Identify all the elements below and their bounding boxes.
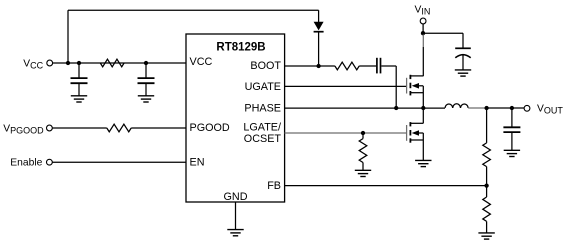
wire FB net bbox=[285, 185, 487, 187]
svg-text:OCSET: OCSET bbox=[244, 133, 282, 145]
terminal VIN bbox=[420, 18, 426, 24]
resistor R3 (boot) bbox=[335, 62, 359, 70]
wire LGATE/OCSET net (grey) bbox=[285, 132, 407, 134]
node junction phase-boot bbox=[394, 106, 398, 110]
wire VCC to top rail bbox=[67, 10, 69, 63]
svg-text:PHASE: PHASE bbox=[244, 103, 281, 115]
resistor R5 (feedback top) bbox=[483, 143, 491, 167]
capacitor C1 (VCC decoupling 1) bbox=[71, 63, 88, 96]
wire top rail to diode bbox=[68, 9, 319, 11]
ground under GND pin bbox=[227, 230, 243, 236]
svg-text:GND: GND bbox=[224, 191, 248, 203]
capacitor C4 (input, polarized) bbox=[455, 48, 471, 69]
wire VOUT net bbox=[487, 107, 525, 109]
terminal VPGOOD bbox=[47, 125, 53, 131]
svg-text:VCC: VCC bbox=[23, 59, 43, 71]
svg-text:VOUT: VOUT bbox=[537, 104, 563, 116]
IC U1 RT8129B body bbox=[186, 34, 285, 202]
capacitor C3 (bootstrap) bbox=[377, 58, 381, 74]
ground under R6 bbox=[478, 233, 494, 239]
inductor L1 bbox=[445, 104, 468, 108]
ground under C2 bbox=[138, 96, 154, 102]
wire UGATE net bbox=[285, 85, 407, 87]
node junction OCSET bbox=[361, 131, 365, 135]
wire Q1 source to phase bbox=[422, 86, 424, 108]
wire VIN grey segment to Q1 drain bbox=[422, 35, 424, 48]
pin label LGATE/OCSET bbox=[243, 122, 281, 145]
node junction VCC-B bbox=[77, 61, 81, 65]
wire Q2 source to ground bbox=[422, 133, 424, 160]
capacitor C2 (VCC decoupling 2) bbox=[138, 63, 155, 96]
svg-text:BOOT: BOOT bbox=[250, 60, 281, 72]
wire PGOOD net left bbox=[52, 127, 107, 129]
wire phase to Q2 drain bbox=[422, 108, 424, 123]
node junction VCC-C bbox=[144, 61, 148, 65]
svg-text:VCC: VCC bbox=[190, 56, 213, 68]
wire GND pin lead bbox=[235, 202, 237, 229]
wire boot cap to phase bbox=[381, 66, 396, 108]
svg-text:RT8129B: RT8129B bbox=[216, 41, 265, 53]
ground under Q2 bbox=[415, 160, 431, 166]
resistor R6 (feedback bottom) bbox=[483, 197, 491, 221]
svg-text:Enable: Enable bbox=[10, 158, 42, 169]
resistor R2 (PGOOD pull-up) bbox=[107, 124, 131, 132]
terminal VOUT bbox=[524, 105, 530, 111]
wire inductor to VOUT grey bbox=[468, 107, 486, 109]
resistor R1 (VCC filter) bbox=[100, 59, 124, 67]
svg-text:UGATE: UGATE bbox=[245, 81, 281, 93]
wire boot resistor to cap bbox=[359, 65, 376, 67]
svg-text:EN: EN bbox=[190, 157, 205, 169]
capacitor C5 (output) bbox=[503, 108, 520, 150]
wire R4 to ground bbox=[362, 163, 364, 171]
svg-text:FB: FB bbox=[267, 180, 281, 192]
node junction phase-fets bbox=[421, 106, 425, 110]
wire EN net bbox=[52, 161, 186, 163]
wire R6 to ground bbox=[486, 221, 488, 232]
svg-text:VIN: VIN bbox=[415, 5, 431, 17]
ground under C4 bbox=[455, 70, 471, 76]
node junction VOUT-R bbox=[484, 106, 488, 110]
svg-text:PGOOD: PGOOD bbox=[190, 122, 230, 134]
node junction VCC-A bbox=[66, 61, 70, 65]
ground under C5 bbox=[504, 150, 520, 156]
transistor Q1 (high-side MOSFET) bbox=[407, 75, 424, 96]
svg-text:LGATE/: LGATE/ bbox=[243, 122, 281, 134]
resistor R4 (OCSET) bbox=[359, 139, 367, 163]
diode D1 (bootstrap) bbox=[314, 10, 324, 66]
wire VIN to input cap bbox=[423, 33, 463, 48]
ground under R4 bbox=[355, 170, 371, 176]
wire VIN drop bbox=[422, 24, 424, 33]
node junction FB bbox=[484, 183, 488, 187]
wire R5 to FB node bbox=[486, 167, 488, 197]
wire PGOOD net right bbox=[131, 127, 186, 129]
wire VCC net bbox=[53, 62, 186, 64]
node junction BOOT bbox=[316, 64, 320, 68]
terminal VCC bbox=[47, 60, 53, 66]
wire VOUT to R5 bbox=[486, 108, 488, 143]
wire Q1 drain bbox=[422, 47, 424, 76]
wire BOOT net bbox=[285, 65, 335, 67]
wire OCSET to R4 bbox=[362, 133, 364, 139]
terminal Enable bbox=[47, 159, 53, 165]
wire PHASE net bbox=[285, 107, 446, 109]
ground under C1 bbox=[71, 96, 87, 102]
svg-text:VPGOOD: VPGOOD bbox=[3, 124, 44, 136]
node junction VIN bbox=[421, 31, 425, 35]
transistor Q2 (low-side MOSFET) bbox=[407, 122, 424, 143]
node junction VOUT-C bbox=[510, 106, 514, 110]
